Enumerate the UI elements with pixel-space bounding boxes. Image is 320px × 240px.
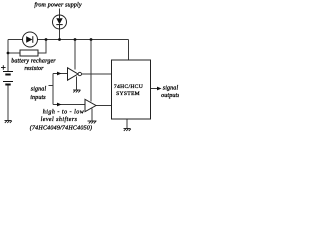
wire VCC rail [8, 39, 129, 41]
wire brace nub to label [49, 85, 54, 87]
wire upper shifter output [82, 73, 112, 75]
svg-text:battery recharger: battery recharger [11, 59, 56, 65]
wire lower shifter output [96, 105, 112, 107]
node junction dot at battery/resistor [7, 52, 10, 55]
node junction dot at lower shifter supply [90, 38, 93, 41]
svg-text:SYSTEM: SYSTEM [116, 91, 140, 97]
svg-text:(74HC4049/74HC4050): (74HC4049/74HC4050) [30, 124, 93, 131]
battery BT1 [3, 72, 13, 85]
wire lower signal input arm [53, 104, 85, 106]
svg-text:from power supply: from power supply [34, 2, 82, 9]
wire signal output [151, 88, 160, 90]
svg-text:signal: signal [163, 86, 179, 92]
arrowhead lower signal input [57, 103, 62, 107]
diode D1 from power supply (circled, pointing down) [53, 15, 67, 29]
svg-text:resistor: resistor [24, 66, 44, 72]
wire battery negative down to ground [7, 85, 9, 121]
diode D2 battery discharge (circled, pointing right) [23, 32, 38, 47]
ground at lower level shifter [88, 121, 97, 124]
wire upper shifter ground stub [76, 77, 78, 90]
svg-text:inputs: inputs [30, 95, 46, 101]
wire VCC drop to lower level shifter [90, 40, 92, 102]
node junction dot at upper shifter supply [74, 38, 77, 41]
wire resistor right lead up to rail [38, 40, 46, 54]
svg-text:74HC/HCU: 74HC/HCU [114, 84, 143, 90]
wire resistor left lead to battery node [8, 52, 20, 54]
node junction dot at recharger resistor [45, 38, 48, 41]
wire signal input brace spine [52, 74, 54, 105]
ground at upper level shifter [73, 90, 81, 93]
wire lower shifter ground stub [91, 109, 93, 121]
op-amp U1 upper level shifter (inverter 74HC4049) [68, 68, 82, 80]
node junction dot at top diode [58, 38, 61, 41]
resistor R1 battery recharger [20, 50, 38, 56]
svg-text:signal: signal [31, 87, 47, 93]
op-amp U2 lower level shifter (buffer 74HC4050) [85, 99, 96, 111]
svg-text:outputs: outputs [161, 93, 179, 99]
arrowhead upper signal input [57, 72, 62, 76]
wire system block ground stub [126, 119, 128, 128]
wire diode D1 to VCC rail [59, 29, 61, 40]
ground at system block [124, 129, 131, 132]
svg-text:high - to - low: high - to - low [43, 110, 85, 116]
wire VCC drop to upper level shifter [74, 40, 76, 70]
wire upper signal input arm [53, 73, 68, 75]
IC U3 74HC/HCU system block [112, 60, 151, 119]
wire battery positive drop [7, 40, 9, 72]
battery plus sign [1, 65, 6, 70]
arrowhead signal output [157, 87, 162, 91]
wire from power supply label down to diode D1 [59, 9, 61, 16]
wire VCC drop to system block [128, 40, 130, 61]
ground at battery [5, 121, 12, 124]
svg-text:level shifters: level shifters [41, 116, 78, 123]
